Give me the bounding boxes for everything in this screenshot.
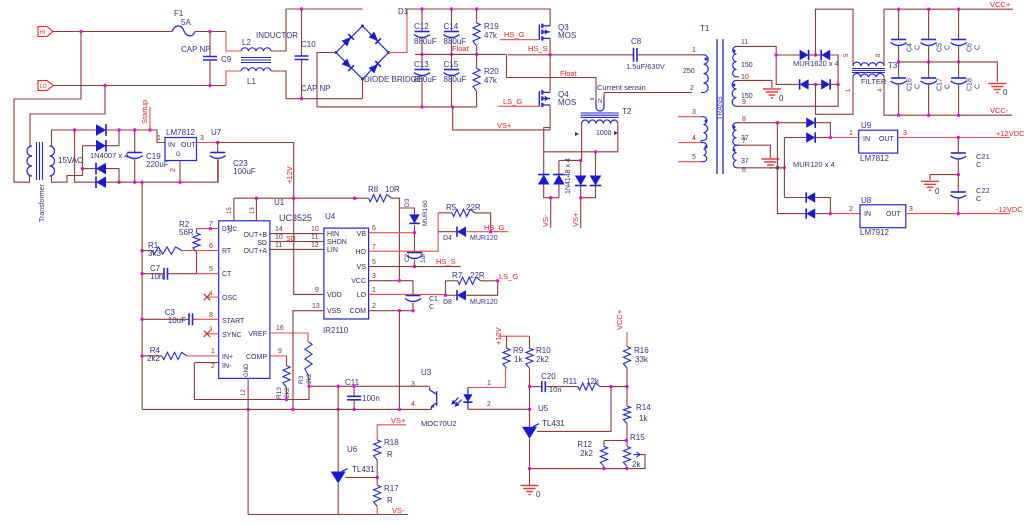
- wire T1 pin10 to ground: [739, 80, 772, 88]
- svg-text:R10: R10: [536, 346, 551, 355]
- IC U1 UC3525 body: [219, 221, 270, 379]
- capacitor C13 880uF: [421, 54, 423, 69]
- svg-text:C18: C18: [967, 78, 974, 91]
- wire rectifier negative to T3: [816, 77, 854, 114]
- svg-text:VDD: VDD: [327, 292, 342, 299]
- resistor R8 10R: [369, 195, 392, 202]
- svg-text:47k: 47k: [484, 31, 498, 40]
- wire pin8 vertical to D-d: [777, 123, 806, 214]
- svg-text:16: 16: [276, 325, 284, 332]
- junction pin8 node: [776, 121, 779, 124]
- resistor R7 22R: [458, 277, 481, 284]
- wire D8 out: [466, 281, 497, 296]
- ground bottom network: [521, 486, 539, 495]
- resistor R1 3k3: [142, 250, 152, 252]
- wire rectifier positive to T3: [816, 9, 854, 66]
- svg-text:C11: C11: [345, 378, 360, 387]
- filter choke T3 top winding: [853, 62, 884, 66]
- svg-text:VB: VB: [357, 231, 367, 238]
- svg-text:100uF: 100uF: [233, 167, 256, 176]
- svg-text:3k3: 3k3: [148, 249, 161, 258]
- wire VS- bottom run: [248, 514, 408, 516]
- svg-text:10n: 10n: [549, 385, 562, 394]
- inductor L2: [226, 32, 241, 52]
- wire Q3 gate stub: [500, 39, 539, 41]
- wire pin6 vertical: [783, 138, 785, 198]
- wire D14 to D15 junction: [815, 123, 830, 138]
- wire AC line drop to left rail: [14, 32, 81, 183]
- svg-text:C17: C17: [937, 78, 944, 91]
- svg-text:U3: U3: [421, 368, 432, 377]
- diode D19 1N4007: [96, 140, 106, 152]
- svg-text:SD: SD: [257, 240, 267, 247]
- svg-text:0: 0: [536, 490, 541, 499]
- svg-text:C20: C20: [541, 372, 556, 381]
- svg-text:9: 9: [315, 287, 319, 294]
- svg-text:C6: C6: [967, 43, 974, 52]
- wire Q3 source to HS_S: [549, 38, 551, 54]
- junctions on VCC+ rail: [897, 8, 900, 11]
- svg-text:MUR120: MUR120: [470, 235, 498, 242]
- svg-text:LO: LO: [357, 292, 367, 299]
- wire primary bottom: [29, 176, 31, 182]
- svg-text:R14: R14: [636, 403, 651, 412]
- svg-text:C10: C10: [301, 40, 316, 49]
- svg-text:R: R: [387, 450, 393, 459]
- wire to U9 input: [830, 137, 858, 139]
- ground output mid: [988, 84, 1006, 93]
- svg-text:VS-: VS-: [392, 506, 405, 515]
- regulator U8 LM7912: [860, 205, 906, 228]
- svg-text:C2: C2: [404, 253, 411, 262]
- junctions mid rail: [897, 60, 900, 63]
- crossover marker pin6: [775, 166, 779, 170]
- connector P2 (AC neutral): [38, 81, 53, 91]
- resistor R17: [374, 485, 381, 506]
- svg-text:LM7912: LM7912: [860, 228, 889, 237]
- wire C8 to T1 pin1: [637, 54, 701, 56]
- junction pin7: [209, 227, 212, 230]
- diode D13 MUR1620: [821, 79, 830, 89]
- svg-text:VS+: VS+: [571, 212, 580, 227]
- wire U1 pin2 stub: [194, 362, 218, 364]
- svg-text:1: 1: [157, 135, 161, 142]
- negative DC bus rail: [317, 106, 477, 108]
- svg-text:C8: C8: [631, 37, 642, 46]
- svg-text:LM7812: LM7812: [166, 128, 195, 137]
- svg-text:DT/C: DT/C: [222, 226, 237, 233]
- diode D12 MUR1620: [800, 79, 809, 89]
- svg-text:R18: R18: [384, 438, 399, 447]
- svg-text:MUR1620 x 4: MUR1620 x 4: [793, 59, 839, 68]
- junction C23 top: [216, 141, 219, 144]
- wire R15 wiper: [627, 455, 645, 469]
- wire VCC rail of U1: [234, 197, 355, 199]
- wire VS+ stub: [580, 198, 582, 228]
- wire U1 pin13 stub: [255, 198, 257, 221]
- svg-text:LS_G: LS_G: [503, 97, 522, 106]
- diode D4 MUR120: [457, 227, 466, 237]
- connector P1 (AC line): [38, 27, 53, 37]
- resistor R14 1k: [626, 387, 628, 407]
- svg-text:VSS: VSS: [327, 308, 341, 315]
- svg-text:HS_S: HS_S: [528, 44, 548, 53]
- capacitor C3 10uF: [142, 318, 189, 320]
- svg-text:D4: D4: [443, 235, 452, 242]
- junction COM C1: [411, 309, 414, 312]
- svg-text:C: C: [976, 194, 982, 203]
- junction aux ac2: [81, 167, 84, 170]
- wire feedback W1 from pin2: [194, 363, 429, 400]
- wire AC neutral: [53, 85, 226, 87]
- wire ac2 to diode rows: [83, 145, 97, 147]
- svg-text:MUR160: MUR160: [422, 200, 429, 226]
- wire LO pin: [369, 293, 446, 295]
- svg-text:GND: GND: [244, 363, 250, 377]
- svg-text:R12: R12: [577, 440, 592, 449]
- node junction on AC line: [79, 30, 82, 33]
- junction VS+ tap: [579, 196, 582, 199]
- wire bridge right vertex to positive bus: [389, 9, 408, 53]
- bridge diode bottom-right: [369, 61, 381, 73]
- resistor R19 47k: [476, 9, 478, 23]
- opto U3 LED: [467, 388, 469, 395]
- wire +12V to VDD: [294, 198, 324, 294]
- junction D8 R7 left: [444, 294, 447, 297]
- wire +12V stub to R9 R10: [498, 335, 530, 337]
- T1 pin5 stub: [678, 161, 701, 163]
- wire ref drop to U5: [537, 387, 611, 432]
- junction C10 top: [300, 7, 303, 10]
- svg-text:10: 10: [311, 226, 319, 233]
- transistor Q3 MOS: [538, 25, 540, 40]
- svg-text:U4: U4: [325, 212, 336, 221]
- wire HS_S rail: [508, 54, 634, 56]
- svg-text:5A: 5A: [181, 18, 191, 27]
- svg-text:2k: 2k: [632, 460, 641, 469]
- svg-text:3: 3: [411, 381, 415, 388]
- svg-text:CAP NP: CAP NP: [301, 84, 331, 93]
- svg-text:INDUCTOR: INDUCTOR: [256, 31, 298, 40]
- wire AC line to fuse: [53, 31, 172, 33]
- resistor R5 22R: [452, 209, 475, 216]
- junction +12V tap: [292, 197, 295, 200]
- wire T1 pin11 to rectifier: [739, 46, 800, 84]
- junctions on VCC- rail: [897, 114, 900, 117]
- svg-text:C12: C12: [414, 22, 429, 31]
- svg-text:U9: U9: [861, 121, 872, 130]
- capacitor midpoint rail (Float): [415, 53, 507, 55]
- junction C10 bottom: [300, 97, 303, 100]
- svg-text:VCC+: VCC+: [990, 0, 1011, 9]
- resistor R12 2k2: [604, 440, 626, 442]
- shunt regulator U6 TL431: [331, 472, 346, 484]
- wire Q4 drain to switch node: [549, 55, 551, 93]
- svg-text:C5: C5: [937, 43, 944, 52]
- wire T2 secondary right to rectifier: [544, 124, 618, 152]
- svg-text:1: 1: [692, 47, 696, 54]
- svg-text:+12V: +12V: [285, 166, 294, 184]
- svg-text:F1: F1: [174, 9, 184, 18]
- svg-text:6: 6: [209, 243, 213, 250]
- wire bridge bottom vertex to AC rail: [362, 79, 364, 99]
- svg-text:10uF: 10uF: [168, 316, 186, 325]
- junction MUR1620 ac left: [775, 53, 778, 56]
- svg-text:2k2: 2k2: [284, 387, 291, 398]
- junction R20 top: [475, 53, 478, 56]
- regulator U9 LM7812: [859, 130, 898, 153]
- svg-text:880uF: 880uF: [444, 75, 467, 84]
- svg-text:5: 5: [692, 154, 696, 161]
- svg-text:VS+: VS+: [391, 416, 406, 425]
- svg-text:2: 2: [170, 168, 177, 172]
- diode D17 MUR120: [806, 208, 815, 218]
- wire U7 gnd pin: [179, 161, 181, 183]
- resistor R3 2k2: [305, 342, 312, 376]
- junction R12 link: [625, 439, 628, 442]
- diode D20 1N4007: [96, 163, 106, 175]
- capacitor C6: [958, 9, 960, 39]
- svg-text:C1: C1: [429, 296, 438, 303]
- svg-text:2: 2: [690, 85, 694, 92]
- transformer T2 core: [581, 113, 619, 117]
- svg-text:2: 2: [372, 303, 376, 310]
- svg-text:R9: R9: [513, 346, 524, 355]
- svg-text:8: 8: [209, 312, 213, 319]
- wire D15 out: [815, 137, 830, 139]
- svg-text:OUT: OUT: [879, 136, 895, 143]
- T1 primary winding pins 1-2: [704, 55, 709, 93]
- capacitor C23 100uF: [217, 143, 219, 153]
- svg-text:12k: 12k: [586, 377, 600, 386]
- junction R12 bottom: [602, 467, 605, 470]
- svg-text:D1: D1: [398, 7, 409, 16]
- junction sense left pair: [579, 159, 582, 162]
- junction U7 gnd: [178, 181, 181, 184]
- svg-text:START: START: [222, 318, 245, 325]
- svg-text:OUT+B: OUT+B: [243, 232, 267, 239]
- resistor R16 33k: [626, 332, 628, 347]
- junction gnd takeoff: [140, 181, 143, 184]
- junction pin12 crossing: [246, 408, 249, 411]
- svg-text:L1: L1: [247, 77, 256, 86]
- svg-text:IN-: IN-: [222, 363, 232, 370]
- svg-text:250: 250: [683, 68, 695, 75]
- resistor R9 1k: [506, 336, 508, 348]
- resistor R2 56R: [196, 229, 198, 233]
- junction HS_G drive: [489, 230, 492, 233]
- wire U7 out: [197, 142, 218, 144]
- wire AC neutral drop to primary top: [30, 86, 105, 147]
- svg-text:C15: C15: [444, 60, 459, 69]
- svg-text:2k2: 2k2: [580, 449, 593, 458]
- junction U5 anode W3: [528, 467, 531, 470]
- svg-text:T3: T3: [888, 61, 898, 70]
- wire U1 out B to U4 HIN: [270, 233, 324, 235]
- junction -12 input: [829, 212, 832, 215]
- diode D16 MUR120: [806, 192, 815, 202]
- svg-text:14: 14: [275, 226, 283, 233]
- IC U4 IR2110 body: [324, 228, 369, 319]
- junction R18 R17 ref: [376, 476, 379, 479]
- svg-text:TL431: TL431: [352, 465, 375, 474]
- diode D6 1N4148: [553, 175, 565, 185]
- junction W2 R16: [625, 385, 628, 388]
- junction C15 bottom / VS+ tap: [451, 105, 454, 108]
- capacitor C7 10n: [142, 273, 164, 275]
- wire T2 secondary left to rectifier: [581, 124, 583, 161]
- svg-text:Startup: Startup: [140, 100, 149, 124]
- wire D-b row left: [784, 137, 806, 139]
- svg-text:CT: CT: [222, 271, 232, 278]
- transformer T2 primary hairpin: [596, 97, 604, 112]
- junction R10 W2: [528, 385, 531, 388]
- junction R4 left: [140, 354, 143, 357]
- transformer T1 core: [717, 39, 723, 174]
- resistor R13 2k2: [283, 366, 290, 388]
- junction R13 W1: [285, 398, 288, 401]
- wire rectifier right side: [830, 55, 838, 84]
- capacitor C15 880uF: [451, 54, 453, 69]
- junction C7 left: [140, 272, 143, 275]
- svg-text:1000: 1000: [596, 130, 612, 137]
- wire startup stub: [149, 107, 151, 130]
- svg-text:T1: T1: [700, 24, 710, 33]
- wire U1 pin8 stub START: [197, 318, 219, 320]
- svg-text:3: 3: [200, 135, 204, 142]
- svg-text:FILTER: FILTER: [861, 77, 887, 86]
- capacitor C16: [898, 62, 900, 78]
- svg-text:C16: C16: [907, 78, 914, 91]
- ground at T1 pin7: [761, 159, 779, 168]
- wire LED anode to R9: [468, 368, 506, 387]
- diode D9 1N4148: [590, 176, 602, 186]
- svg-text:100n: 100n: [362, 394, 380, 403]
- svg-text:C: C: [945, 84, 952, 89]
- svg-text:13: 13: [312, 303, 320, 310]
- svg-text:10: 10: [275, 234, 283, 241]
- svg-text:D3: D3: [404, 198, 411, 207]
- svg-text:3: 3: [903, 130, 907, 137]
- svg-text:CAP NP: CAP NP: [181, 45, 211, 54]
- svg-text:37: 37: [741, 158, 749, 165]
- junction VCC R8: [398, 279, 401, 282]
- wire aux + rail: [106, 130, 165, 143]
- wire COM to ground rail: [398, 311, 400, 410]
- wire bottom pair joins: [809, 83, 822, 85]
- junction C13 top: [420, 53, 423, 56]
- svg-text:OUT+A: OUT+A: [243, 248, 267, 255]
- junction C14 top: [450, 7, 453, 10]
- svg-text:HS_S: HS_S: [436, 257, 456, 266]
- svg-text:IN+: IN+: [222, 354, 233, 361]
- svg-text:OUT: OUT: [886, 211, 902, 218]
- diode D7 1N4148: [575, 176, 587, 186]
- capacitor C5: [928, 9, 930, 39]
- junction R19 top: [475, 7, 478, 10]
- no-connect X at SYNC: [207, 333, 219, 335]
- wire D4 out to HS_G: [466, 231, 508, 233]
- svg-text:C: C: [429, 304, 434, 311]
- wire Q4 gate stub: [498, 105, 539, 107]
- transformer TX1 secondary winding: [50, 146, 55, 176]
- regulator U7 LM7812: [165, 138, 197, 161]
- svg-text:R: R: [387, 496, 393, 505]
- wire VS+ return to negative bus: [453, 107, 550, 130]
- svg-text:OUT: OUT: [181, 142, 197, 149]
- svg-text:10R: 10R: [385, 185, 400, 194]
- svg-text:TRANS: TRANS: [717, 96, 724, 120]
- junction R10 pin2 node: [528, 408, 531, 411]
- svg-text:22R: 22R: [466, 203, 481, 212]
- svg-text:R20: R20: [484, 67, 499, 76]
- diode bridge outline: [336, 26, 389, 79]
- svg-text:R15: R15: [630, 433, 645, 442]
- svg-text:10n: 10n: [150, 272, 163, 281]
- wire VS+ pair bottoms: [581, 186, 596, 198]
- T1 aux winding pin4-5: [678, 142, 701, 144]
- common-mode choke core: [241, 58, 271, 63]
- svg-text:HS_G: HS_G: [504, 30, 525, 39]
- svg-text:N: N: [598, 99, 602, 105]
- capacitor C1: [412, 281, 414, 296]
- wire U1 pin15 stub: [233, 198, 235, 221]
- svg-text:IN: IN: [168, 142, 175, 149]
- resistor R4 2k2: [142, 355, 162, 357]
- svg-text:1: 1: [487, 380, 491, 387]
- mid rail of output caps: [899, 62, 998, 82]
- wire U5 anode: [529, 439, 531, 469]
- svg-text:150: 150: [741, 62, 753, 69]
- wire T3 top right to VCC+ rail: [884, 9, 1013, 66]
- svg-text:R5: R5: [446, 203, 457, 212]
- wire D13 out to ac right: [830, 83, 838, 85]
- T1 secondary winding pins 7-6: [733, 145, 737, 168]
- svg-text:VS: VS: [357, 264, 367, 271]
- svg-text:SYNC: SYNC: [222, 332, 241, 339]
- diode D18 1N4007: [96, 124, 106, 136]
- wire D20 down: [106, 169, 119, 183]
- svg-text:1k: 1k: [514, 355, 523, 364]
- T3 core: [852, 69, 885, 73]
- svg-text:RT: RT: [222, 248, 232, 255]
- svg-text:R16: R16: [634, 346, 649, 355]
- wire D-c row left: [784, 197, 806, 199]
- svg-text:6: 6: [372, 225, 376, 232]
- ground rail vertical: [141, 182, 143, 409]
- wire Q4 source down: [549, 105, 551, 130]
- svg-text:Float: Float: [560, 69, 578, 78]
- svg-text:OSC: OSC: [222, 295, 237, 302]
- svg-text:MUR120 x 4: MUR120 x 4: [793, 160, 835, 169]
- svg-text:COM: COM: [350, 308, 367, 315]
- capacitor C10 (CAP NP): [301, 9, 303, 56]
- T1 secondary winding pins 10-9: [732, 80, 736, 106]
- svg-text:11: 11: [311, 234, 318, 241]
- junction C11 gnd: [352, 408, 355, 411]
- svg-text:7: 7: [742, 138, 746, 145]
- junction COM gnd: [398, 408, 401, 411]
- diode D15 MUR120: [806, 132, 815, 142]
- junction VSS gnd: [291, 408, 294, 411]
- svg-text:220uF: 220uF: [146, 160, 169, 169]
- junction LS_G drive: [496, 279, 499, 282]
- svg-text:0: 0: [779, 94, 784, 103]
- junction C15 top: [450, 53, 453, 56]
- diode D3 MUR160: [409, 214, 419, 223]
- svg-text:VCC: VCC: [351, 278, 366, 285]
- wire U1 SD to U4 SHDN: [270, 241, 324, 243]
